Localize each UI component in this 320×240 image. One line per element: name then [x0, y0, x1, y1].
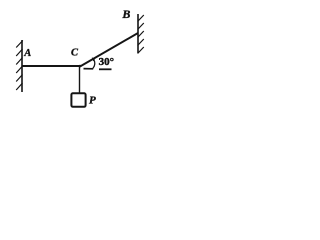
- wall at B (right support line): [137, 14, 139, 53]
- bar AC (horizontal member): [22, 65, 81, 67]
- tie rod CB (diagonal member): [80, 33, 138, 67]
- wall hatching at A: [16, 41, 23, 91]
- angle arc arrowhead: [92, 57, 96, 61]
- wall at A (left support line): [21, 40, 23, 92]
- svg-text:30°: 30°: [99, 56, 114, 68]
- angle arc at C: [93, 59, 95, 68]
- node C junction: [79, 65, 82, 68]
- string from C to weight: [79, 66, 81, 94]
- svg-text:C: C: [71, 48, 79, 59]
- svg-text:B: B: [121, 7, 130, 21]
- dashed reference line from C (dash 1): [84, 68, 94, 70]
- background: [0, 0, 156, 118]
- svg-text:A: A: [23, 48, 31, 59]
- svg-text:P: P: [89, 94, 96, 106]
- weight P (box): [71, 93, 85, 107]
- dashed reference line from C (dash 2): [99, 68, 112, 70]
- wall hatching at B: [138, 15, 144, 54]
